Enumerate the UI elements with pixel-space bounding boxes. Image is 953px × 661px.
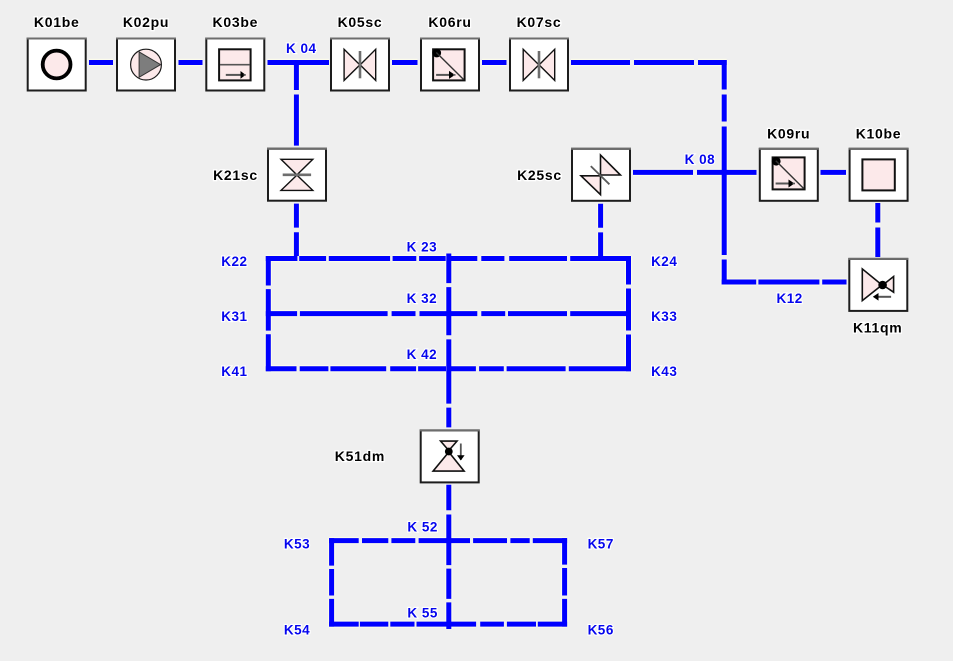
component box K11qm bbox=[848, 259, 908, 311]
component box K25sc bbox=[571, 149, 631, 201]
valve symbol K25sc bbox=[581, 155, 620, 195]
controller symbol K09ru bbox=[772, 157, 805, 190]
svg-text:K 55: K 55 bbox=[407, 606, 438, 621]
svg-text:K54: K54 bbox=[284, 622, 310, 637]
component box K07sc bbox=[509, 39, 569, 91]
svg-text:K07sc: K07sc bbox=[517, 14, 562, 30]
svg-text:K06ru: K06ru bbox=[428, 14, 471, 30]
component box K05sc bbox=[330, 39, 390, 91]
component box K03be bbox=[205, 39, 265, 91]
valve symbol K07sc bbox=[523, 49, 555, 80]
pump symbol K02pu bbox=[131, 49, 162, 80]
wire halo bbox=[89, 60, 878, 629]
svg-text:K56: K56 bbox=[588, 622, 614, 637]
svg-text:K 42: K 42 bbox=[407, 347, 438, 362]
svg-text:K51dm: K51dm bbox=[335, 448, 385, 464]
component box K06ru bbox=[420, 39, 480, 91]
svg-text:K24: K24 bbox=[651, 254, 677, 269]
svg-text:K53: K53 bbox=[284, 536, 310, 551]
svg-text:K01be: K01be bbox=[34, 14, 80, 30]
svg-text:K 23: K 23 bbox=[407, 240, 438, 255]
metering valve symbol K51dm bbox=[433, 441, 465, 471]
component box K02pu bbox=[116, 39, 176, 91]
component box K21sc bbox=[267, 149, 327, 201]
svg-text:K11qm: K11qm bbox=[853, 320, 902, 336]
component box K51dm bbox=[420, 430, 480, 482]
controller symbol K06ru bbox=[432, 49, 464, 81]
svg-text:K25sc: K25sc bbox=[517, 167, 562, 183]
svg-text:K 52: K 52 bbox=[407, 519, 438, 534]
svg-text:K22: K22 bbox=[221, 254, 247, 269]
svg-text:K41: K41 bbox=[221, 364, 247, 379]
vessel symbol K01be bbox=[43, 51, 71, 79]
svg-text:K09ru: K09ru bbox=[767, 126, 810, 142]
svg-text:K43: K43 bbox=[651, 364, 677, 379]
svg-text:K05sc: K05sc bbox=[338, 14, 383, 30]
svg-text:K02pu: K02pu bbox=[123, 14, 169, 30]
svg-text:K12: K12 bbox=[776, 291, 802, 306]
svg-text:K31: K31 bbox=[221, 309, 247, 324]
svg-text:K 04: K 04 bbox=[286, 41, 317, 56]
component box K09ru bbox=[759, 149, 819, 201]
flowmeter symbol K11qm bbox=[862, 269, 893, 301]
component box K01be bbox=[27, 39, 87, 91]
svg-text:K57: K57 bbox=[588, 536, 614, 551]
valve symbol K05sc bbox=[344, 49, 376, 80]
svg-text:K21sc: K21sc bbox=[213, 167, 258, 183]
svg-text:K33: K33 bbox=[651, 309, 677, 324]
svg-text:K03be: K03be bbox=[213, 14, 259, 30]
wire net blue bbox=[89, 60, 878, 629]
valve symbol K21sc bbox=[281, 159, 313, 190]
component box K10be bbox=[849, 149, 909, 201]
tank symbol K03be bbox=[219, 49, 251, 80]
svg-text:K10be: K10be bbox=[856, 126, 902, 142]
tank symbol K10be bbox=[862, 159, 894, 190]
svg-text:K 08: K 08 bbox=[685, 152, 716, 167]
svg-text:K 32: K 32 bbox=[407, 291, 438, 306]
